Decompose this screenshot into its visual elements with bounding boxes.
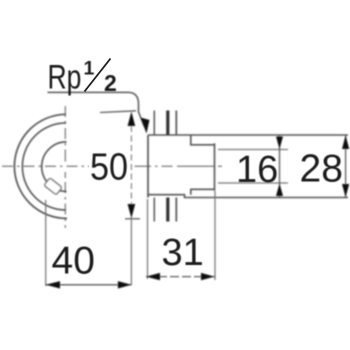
slot tab on dome — [44, 178, 62, 195]
white backing for 50 label — [89, 150, 129, 182]
dim 40 arrow right — [118, 281, 131, 288]
dim 50/40 vertical dimension line — [130, 126, 132, 205]
label Rp — [48, 58, 82, 96]
dim 16 dimension line — [279, 136, 281, 198]
dim 50 extension bottom — [125, 218, 140, 220]
leader arrowhead — [141, 118, 150, 134]
dim 40 arrow left — [46, 281, 60, 288]
leader line Rp1/2 — [48, 92, 145, 127]
dim 50 extension top — [100, 111, 136, 113]
svg-text:2: 2 — [104, 70, 117, 96]
dim 28 dimension line — [345, 135, 347, 198]
dim 31 extension left — [147, 199, 149, 279]
flange rim arc — [22, 123, 66, 210]
dim 28 arrow up — [342, 135, 349, 149]
dim 40 extension left — [45, 200, 47, 286]
dim 16 extension top — [218, 149, 288, 151]
pipe step and spigot — [191, 135, 215, 195]
pipe body outline — [147, 135, 149, 198]
dim 31 extension right — [214, 191, 216, 280]
svg-text:31: 31 — [162, 232, 204, 274]
dim 40 dimension line — [46, 284, 132, 286]
dim 31 arrow left — [146, 273, 160, 280]
label 50 — [90, 145, 128, 188]
dim 50 arrow down — [128, 204, 136, 218]
wire vertical centerline of flange — [64, 106, 66, 228]
flange outer arc — [14, 114, 67, 218]
svg-text:16: 16 — [236, 149, 278, 191]
wall disc edge ticks top — [153, 111, 155, 136]
dim 16 arrow to top — [276, 137, 283, 150]
svg-text:1: 1 — [84, 57, 95, 79]
label 1/2 slash — [85, 59, 111, 92]
wire horizontal centerline — [2, 165, 222, 167]
flange dome circle — [42, 142, 67, 192]
dim 50 arrow up — [128, 112, 136, 127]
dim 31 arrow right — [201, 273, 215, 280]
svg-text:28: 28 — [300, 148, 343, 191]
svg-text:40: 40 — [52, 240, 95, 283]
dim 16 extension bottom — [218, 182, 288, 184]
dim 28 arrow down — [342, 184, 349, 197]
svg-text:Rp: Rp — [48, 58, 82, 96]
dim 31 dimension line — [146, 276, 216, 278]
dim 16 arrow to bottom — [276, 184, 283, 197]
wall disc edge ticks bottom — [153, 198, 155, 222]
svg-text:50: 50 — [90, 145, 128, 188]
